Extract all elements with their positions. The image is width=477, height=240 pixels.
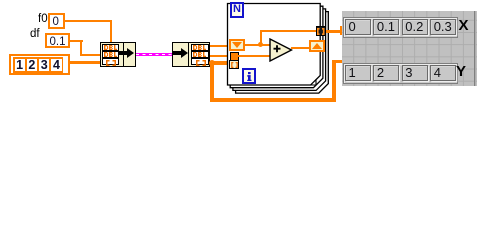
tunnel array in ([])	[229, 60, 239, 69]
unbundle output cell DBL 1	[191, 44, 209, 51]
array indicator Y shell	[343, 63, 458, 84]
shift register left tunnel (down triangle)	[229, 39, 245, 51]
for loop stacked frame 2	[230, 6, 323, 88]
array indicator X shell	[343, 17, 458, 38]
wire array to bundle (thick)	[69, 61, 102, 65]
wire df horizontal2	[80, 54, 101, 56]
wire f0 vertical	[110, 20, 112, 44]
tunnel df (solid orange)	[230, 52, 239, 61]
bundle input cell array []	[102, 58, 119, 65]
page curl fold flap	[311, 80, 316, 85]
Y element 4	[430, 65, 456, 81]
bundle node body	[100, 42, 136, 67]
wire up from dot	[260, 30, 262, 44]
wire end bar	[340, 26, 343, 36]
for loop stacked frame 3	[233, 9, 326, 91]
iteration terminal i	[242, 68, 256, 84]
Y element 2	[373, 65, 399, 81]
unbundle divider	[188, 42, 189, 67]
wire to x tunnel	[260, 30, 317, 32]
panel right edge	[474, 11, 475, 86]
numeric constant 0.1 (df)	[45, 33, 70, 49]
X element 0.2	[402, 19, 428, 35]
for loop structure (stacked frames with page curl)	[225, 1, 331, 96]
label Y	[456, 66, 466, 79]
wire f0 horizontal	[64, 20, 112, 22]
wire unbundle out1 to shift register	[210, 45, 230, 47]
for loop stacked frame 4	[236, 12, 329, 94]
wire add out to shift register right	[291, 47, 310, 49]
wire df tunnel to add	[238, 55, 271, 57]
X element 0.3	[430, 19, 456, 35]
shift register right tunnel (up triangle)	[309, 40, 325, 52]
unbundle node body	[172, 42, 210, 67]
unbundle output cell DBL 2	[191, 51, 209, 58]
label df	[30, 30, 40, 39]
bundle divider	[123, 42, 124, 67]
Y element 3	[402, 65, 428, 81]
bundle input cell DBL 2	[102, 51, 119, 58]
add function	[269, 38, 293, 62]
wire x tunnel to panel	[326, 30, 341, 33]
unbundle output cell array []	[191, 58, 209, 65]
unbundle arrow	[173, 47, 189, 59]
wire shift reg to add (inside loop)	[244, 44, 271, 46]
loop count terminal N	[230, 2, 244, 18]
front panel gray area with grid	[342, 11, 477, 86]
numeric constant 0 (f0)	[48, 13, 65, 29]
wire df horizontal1	[70, 40, 83, 42]
X element 0.1	[373, 19, 399, 35]
bundle arrow	[118, 47, 135, 59]
junction dot inside loop	[258, 42, 264, 48]
wire unbundle out3 to tunnel (thick)	[210, 61, 229, 65]
cluster wire (magenta dashed)	[136, 53, 173, 56]
wire up to Y indicator	[332, 60, 336, 102]
Y element 1	[345, 65, 371, 81]
tunnel x out ([])	[316, 26, 326, 36]
wire df vertical	[80, 40, 82, 55]
wire into Y indicator	[332, 60, 343, 64]
label f0	[38, 15, 48, 24]
array constant [1 2 3 4]	[9, 54, 70, 75]
wire down to bottom	[210, 63, 214, 100]
wire bottom horizontal (thick)	[210, 98, 336, 102]
bundle input cell DBL 1	[102, 44, 119, 51]
junction dot	[209, 60, 215, 66]
wire unbundle out2 to tunnel	[210, 55, 230, 57]
label X	[459, 20, 469, 33]
for loop frame front	[228, 4, 321, 86]
X element 0	[345, 19, 371, 35]
